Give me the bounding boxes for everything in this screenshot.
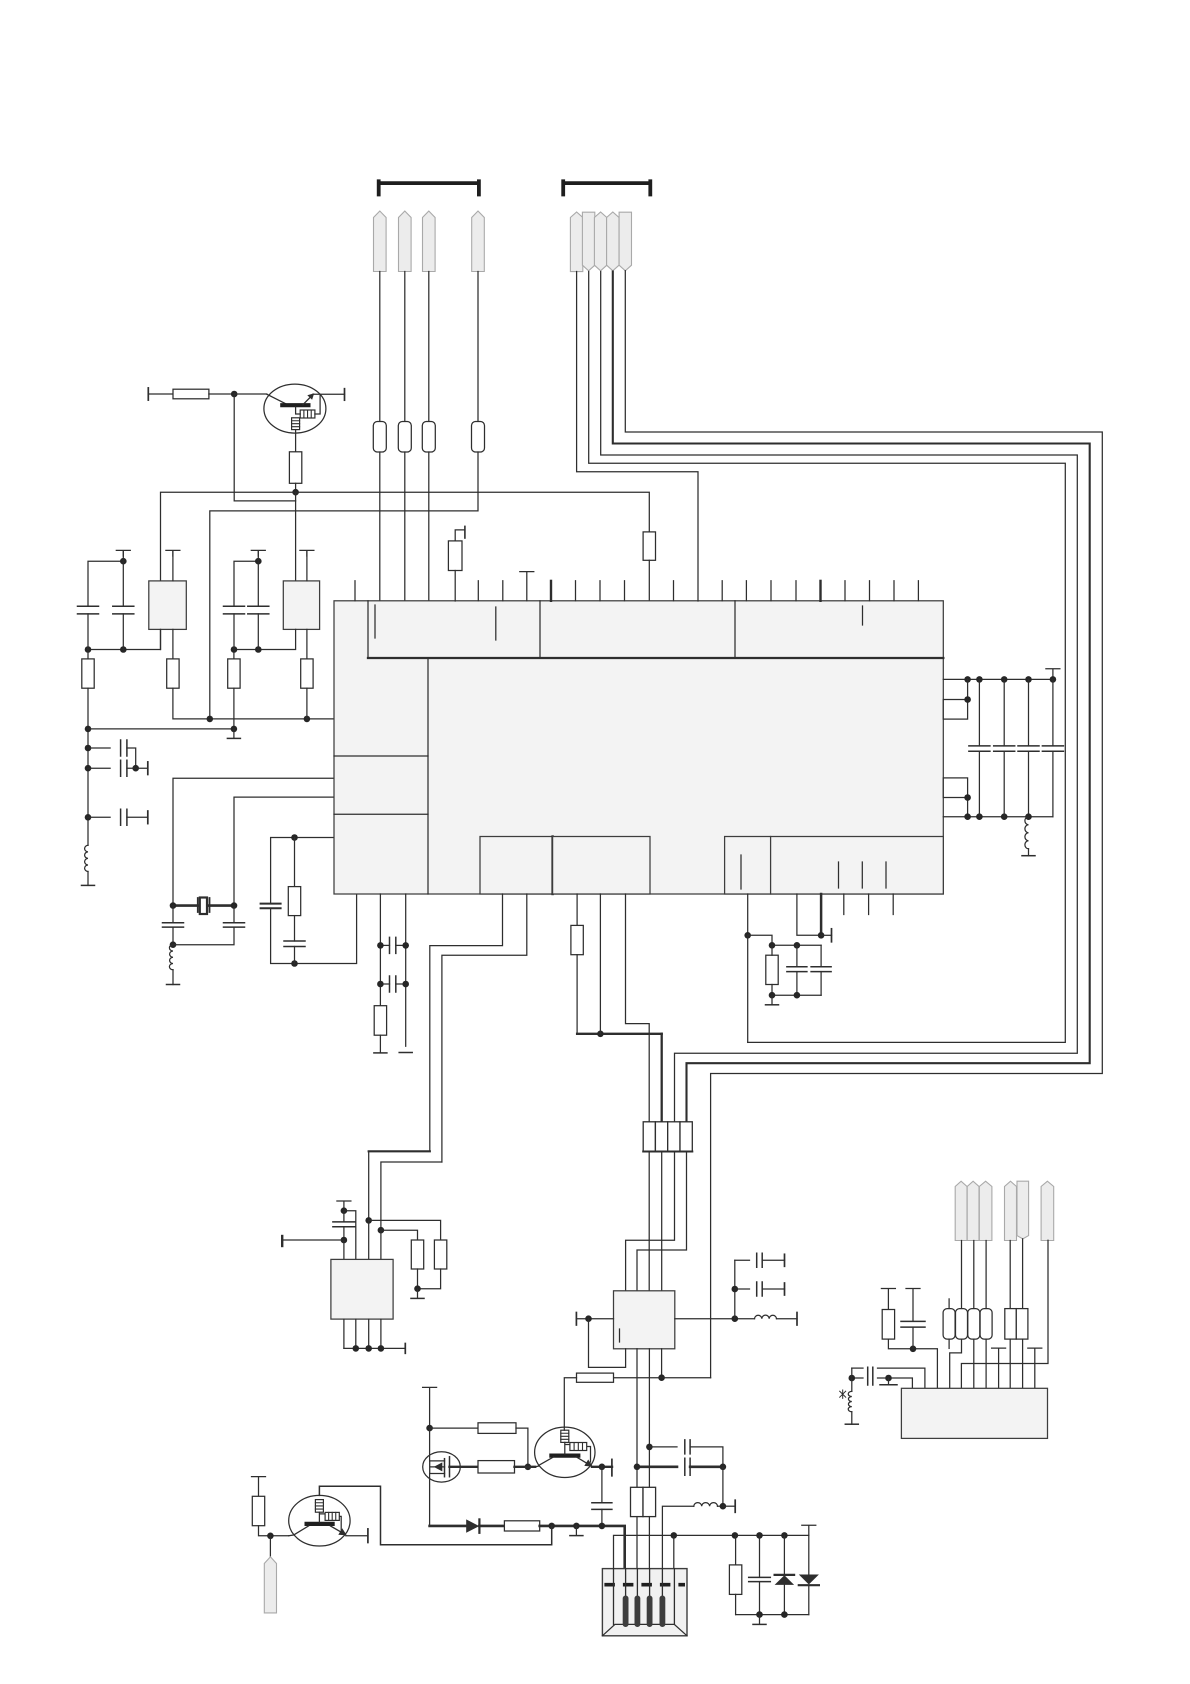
power T pin on U1 top edge [520,572,534,601]
IC U1 left column hline 1 [334,755,428,757]
resistor R1 [173,389,209,399]
junction dot left rail 748 [85,745,92,752]
junction dot rail 728.9 right end [231,726,238,733]
IC U1 top strip left edge [367,601,369,658]
inductor L6 [851,1368,853,1391]
power T above C2 [116,550,130,556]
wire P2 to R3 [404,272,406,422]
connector pin P13 [979,1181,992,1240]
wire U4 left loop [589,1319,626,1368]
wire node A down jog [234,394,295,501]
junction dot 722 rail [720,1464,727,1471]
wire C4 bottom [257,614,259,650]
wire R18 to gnd dot [417,1269,419,1289]
U1 right protrusion box 2 [943,778,967,798]
resistor R7 on rail 492 [643,532,655,560]
wire P8 bus W3 bold [613,272,1090,1122]
capacitor C23 top [646,1444,653,1451]
junction dot left rail 768.2 [85,765,92,772]
junction dots on bold rail [548,1523,555,1530]
wire R20 to dot 527 [516,1428,528,1467]
capacitor C3 [224,606,245,614]
resistor R10 [82,659,94,688]
wire power to U5 pin2 [344,1211,356,1260]
wire U2 top right to power [172,551,174,581]
IC U1 top strip bold bottom [368,657,943,659]
capacitor C11 [978,679,980,746]
terminal tick L5 [723,1505,735,1507]
wire FB1 out 1 [636,1517,638,1570]
wire C10 to loop [294,947,296,964]
wire node A to Q1 base [234,393,267,395]
Q3 emitter entry [289,1534,295,1537]
wire U1 pinB1 jog down [430,894,503,1151]
inductor L5 [662,1506,693,1569]
wire R9 to rail [306,688,308,719]
Q2 internal wires [565,1442,591,1462]
junction dots right rail bottom [964,813,971,820]
wire U4 right to inductor [675,1318,755,1320]
capacitor C18 [820,945,822,967]
bold jog to U5 [369,1150,430,1152]
resistor R22 [504,1521,539,1531]
terminal tick C6 [147,762,149,775]
wire C3 top jog [234,561,258,606]
junction dot X1 right [231,902,238,909]
junction dot 661 on W4 line [658,1374,665,1381]
ground at 888 [888,1378,890,1385]
junction dot 734.8 [732,1315,739,1322]
wire 343 to U5 pin1 [343,1240,345,1259]
Q2 base bar [551,1453,578,1457]
IC U1 sub-block B [553,837,650,895]
RC bottom rail [772,994,821,996]
connector pin P2 [399,211,412,272]
wire U1 pin 797 to 821 [797,894,821,935]
Q2 left entry wire [535,1465,538,1468]
capacitor C8 [172,906,174,923]
wire R15 to bold bus [576,955,578,1034]
IC U1 bottom pin stubs [844,894,893,915]
power T right rail [1046,669,1060,680]
capacitor C17 [796,945,798,967]
wire R19 to gnd dot [418,1269,441,1289]
connector J1 bold bottom [643,1151,692,1153]
wire U1 pin 405 down [405,894,407,1046]
wire P5 to U1 top [577,272,698,602]
power T above C4 [251,550,265,556]
wire C22 to rail [601,1509,603,1526]
IC U1 sub-block A [480,837,553,895]
wire R26 jog to U6 [950,1339,962,1388]
resistor R12 [288,887,300,916]
wire C26 to rail [912,1327,914,1349]
U5 bottom rail [344,1347,405,1349]
terminal tick U5 bottom rail [404,1344,406,1354]
resistor R6 below Q1 [289,452,301,484]
wire U1 pin 625 jog [626,894,650,1122]
Q2 internal resistor horizontal [570,1443,587,1451]
wire C1 bottom [87,614,89,650]
wire collector to C22 [601,1467,603,1503]
power T on thin rail [802,1525,816,1535]
M1 bottom wire [429,1474,431,1526]
IC U1 top strip divider 2 [734,601,736,658]
wire C2 to power T [122,561,124,606]
wire rail 728.9 [88,728,234,730]
junction dot R bottom [414,1285,421,1292]
resistor R24 [735,1535,737,1565]
IC U1 left column divider [427,658,429,894]
terminal input base Q1 [147,388,149,400]
wire 368 to U5 pin3 [368,1220,370,1259]
junction dot C2 top [120,558,127,565]
junction dot X1 left [170,902,177,909]
capacitor C20 [735,1288,750,1290]
junction dot left rail 817.3 [85,814,92,821]
ground below C25 [759,1615,761,1624]
wire 747 to RC top [748,935,772,945]
wire dot to pin capsule [269,1536,271,1557]
wire P16 long jog to U6 [961,1240,1048,1388]
resistor R19 [434,1240,446,1269]
wire U4 bottom 661 [661,1349,663,1378]
wire J1 out 3 jog [626,1152,675,1291]
inductor L4 [755,1315,777,1319]
wire rail492 to U3 top pin [295,492,297,581]
wire U3 top right to power [306,551,308,581]
resistor R18 [411,1240,423,1269]
thin rail 1535 [614,1535,809,1569]
wire R3 to U1 pin [404,452,406,601]
resistor R28 [980,1309,992,1340]
M1 gate bold wire [450,1466,479,1468]
junction dot rail 492 [292,489,299,496]
junction dot M1 top [426,1425,433,1432]
pull-up resistor R13 chain [455,530,465,541]
power T above C26 [906,1289,920,1322]
IC U1 sub-block D [771,837,944,895]
resistor R26 [956,1309,968,1340]
connector pin P4 [472,211,485,272]
connector pin P16 [1041,1181,1054,1240]
Q2 collector diagonal arrow [577,1457,590,1465]
Q3 collector out [346,1535,368,1537]
wire rail to box 674 [673,1535,675,1569]
resistor R27 [968,1309,980,1340]
junction dot cap4 bottom [255,646,262,653]
IC U1 top bold stub 2 [819,581,821,601]
U1 right protrusion box 1 [943,700,967,720]
IC U6 [901,1388,1047,1438]
junction dot L5 right [720,1503,727,1510]
IC U1 sub-block A bold edge [551,837,553,895]
wire R8 to rail 718.9 [173,688,334,719]
capacitor C28 in loop left leg [261,904,281,909]
bold cap rail [637,1466,677,1469]
wire J1 out 4 jog [637,1152,687,1291]
connector pin P14 [1005,1181,1017,1240]
filter block U2 [149,581,187,630]
wire P6 bus W1 [589,272,1066,1043]
wire P7 bus W2 [601,272,1078,1122]
junction dot rail718 at 209.8 [207,716,214,723]
terminal tick L4 [777,1318,798,1320]
Q1 internal resistor vertical [292,418,300,430]
wire R1 to node A [209,393,234,395]
Q3 internal resistor vertical [315,1500,323,1513]
wire R4 to U1 pin [428,452,430,601]
junction dot cap2 bottom [120,646,127,653]
resistor R25 stub [948,1299,950,1309]
junction dot U4 left [585,1315,592,1322]
resistor R14 [374,1006,386,1035]
inductor L3 [1025,813,1032,820]
resistor R16 [766,955,778,984]
junction dots right rail top [964,676,971,683]
junction dot cap1 bottom [85,646,92,653]
battery box BT1 [602,1569,687,1636]
IC U1 inner mark b [495,607,497,640]
junction dot 637 rail [634,1464,641,1471]
wire box2 to rail [967,798,969,817]
wire dot to R20 [430,1427,478,1429]
crystal X1 [198,898,210,912]
wire tick to U4 [576,1318,613,1320]
Q3 base wire loop to rail [319,1486,551,1545]
Q2 internal resistor vertical [561,1430,569,1442]
capacitor C27 shared plates [868,1367,873,1385]
connector pin P6 [582,212,594,271]
junction dot C8 bottom [170,941,177,948]
connector pin P12 [967,1181,979,1240]
wires pins to resistors [962,1239,1023,1309]
junction dots thin rail [671,1532,678,1539]
battery contact bars [623,1596,629,1628]
zener Z1 [783,1535,785,1575]
ground L1 [87,872,89,886]
terminal tick Q3 collector [367,1529,369,1543]
resistor R11 [233,650,235,659]
wire R5 jog to left rail [210,452,478,719]
resistor R29 [882,1310,894,1340]
wire U1 pin 577 chain [576,894,578,925]
junction dot C6 node [132,765,139,772]
terminal tick Q2 collector [611,1459,613,1475]
connector pin P10 [264,1557,276,1613]
battery box inner wires [614,1569,675,1625]
capacitor C7 [88,816,110,818]
resistor R17 [577,1373,614,1382]
power T above R23 [252,1477,266,1497]
junction dot 600 bus [597,1031,604,1038]
Q1 collector terminal tick [344,389,346,401]
node A junction dot [231,391,238,398]
junction dot 1289 [732,1286,739,1293]
transistor Q2 circle [535,1427,595,1477]
Q1 base diagonal [267,394,288,404]
junction dot pin node [267,1533,274,1540]
MOSFET M1 circle [423,1452,461,1482]
resistor R21 [478,1461,515,1473]
transistor Q3 circle [289,1495,350,1546]
junction dot 343 input [341,1237,348,1244]
junction dot coil node [849,1375,856,1382]
IC U1 inner mark a [374,605,376,638]
diode D1 [466,1519,479,1532]
wire R2 to U1 pin [379,452,381,601]
wire cap rail to R10 [87,650,89,659]
IC U1 top pin stubs [355,581,918,601]
wire C2 bottom [122,614,124,650]
wire U4 bottom 649 [648,1349,650,1488]
bold rail corner M1 to diode [430,1525,467,1528]
ground L2 [172,970,174,985]
wire C4 to power T [257,551,259,607]
capacitor C21 [343,1211,345,1222]
ground wire 405 [399,1052,412,1054]
wire R28 to U6 [985,1339,987,1388]
capacitor C12 [1003,679,1005,746]
bottom rail right network [736,1614,809,1616]
power T above M1 [423,1387,437,1428]
wire R12 to C10 [294,916,296,941]
capacitor C1 [78,606,99,614]
capacitor C24 bold [685,1458,690,1475]
capacitor C6 [88,767,110,769]
resistor R9 [301,659,313,688]
wire R11 down to rail [233,688,235,729]
Q1 collector wire to tick [313,393,345,395]
IC U1 main body [334,601,943,894]
junction dot cap3 bottom [231,646,238,653]
junction dot 380 [378,1227,385,1234]
wire U2 bottom-right to R8 [172,629,174,659]
battery box tray [602,1624,687,1635]
wire box1 to rail [967,679,969,699]
junction dot rail718 at 306.9 [304,716,311,723]
wire U4 bottom 637 [636,1349,638,1488]
terminal tick U5 input [281,1236,283,1246]
power T above U5 [337,1201,351,1211]
capacitor C15 bridge [390,937,396,953]
IC U1 inner marks block D [839,862,887,888]
connector pin P9 [619,212,631,271]
resistor R15 [571,925,583,954]
connector pin P7 [594,212,606,271]
power T2 bottom right [1028,1348,1042,1388]
wire R29 to rail dot [888,1339,937,1388]
inductor L2 [169,945,173,970]
capacitor C26 [901,1321,925,1327]
capacitor C22 [592,1503,612,1510]
IC U1 inner mark c [862,606,864,625]
wire 380 to R18 [381,1230,418,1240]
connector pin P3 [423,211,436,272]
wire J1 out 1 [648,1152,650,1291]
asterisk mark [840,1390,846,1398]
resistor pair RN1 [1005,1309,1017,1340]
junction dot 527 [525,1464,532,1471]
wire caps chain up [734,1260,736,1318]
battery box dashed line [604,1583,685,1587]
zener Z2 [808,1535,810,1574]
capacitor C25 [759,1535,761,1577]
filter block FB1 2-cell [631,1487,644,1516]
ground stub at rail 728.9 [233,729,235,738]
Q3 internal wires [319,1512,341,1530]
junction dot ground node [885,1375,892,1382]
wire M1 top [429,1428,431,1461]
wire C3 bottom [233,614,235,650]
wire P4 to R5 [477,272,479,422]
wire P3 to R4 [428,272,430,422]
wire terminal to R1 [148,393,173,395]
ground R18 R19 [417,1289,419,1298]
IC U1 sub-block C [725,837,771,895]
wire RN1a to U6 [1009,1339,1011,1388]
capacitor C2 [113,606,134,614]
wire U1 pin 747 down [747,894,749,935]
ground RC [771,995,773,1004]
wire C1 top jog [88,561,123,606]
resistor R5 [472,422,485,453]
Q1 internal wire bar to resistors [296,407,301,414]
wire U2 bottom-left to cap rail [88,629,161,649]
connector pin P11 [955,1181,967,1240]
wire loop W1 vertical [747,935,749,1042]
wire right rail bottom [943,816,1053,818]
resistor R23 [252,1496,264,1525]
wire R6 to rail [295,483,297,492]
junction dot Q2 collector [599,1464,606,1471]
Q2 top wire [563,1427,565,1430]
bold rail R22 to box [540,1526,625,1569]
wire rail 492 [161,492,650,649]
wire RN1b to U6 [1022,1339,1024,1388]
M1 internals [430,1461,445,1474]
connector pin P5 [570,212,582,272]
power T above U3 [300,550,314,556]
wire R17 to Q2 top [564,1378,576,1427]
IC U1 left column hline 2 [334,813,428,815]
power T above R29 [881,1289,895,1310]
capacitor C4 [248,606,269,614]
junction dot 368 [365,1217,372,1224]
wire R23 to rail [259,1526,289,1536]
wire U3 bottom-left to cap rail 2 [234,629,296,649]
junction dot 747 [744,932,751,939]
bold bus to connector [577,1033,662,1035]
resistor R8 [167,659,179,688]
junction dot loop bottom [291,960,298,967]
resistor R3 [398,422,411,453]
IC U5 [331,1259,393,1319]
Q1 base bar [282,403,308,407]
connector pin P8 [607,212,619,271]
capacitor C16 bridge [390,976,396,992]
transistor Q1 circle [264,384,326,433]
Q3 collector diagonal arrow [331,1526,344,1534]
ground on bold rail [575,1526,577,1535]
capacitor C5 [88,747,110,749]
Q1 emitter wire down [295,430,297,452]
resistor R20 [478,1423,516,1434]
wire 368 to R19 [369,1220,441,1240]
capacitor C10 [284,941,305,947]
RC top rail [772,944,821,946]
capacitor C13 [1028,679,1030,746]
